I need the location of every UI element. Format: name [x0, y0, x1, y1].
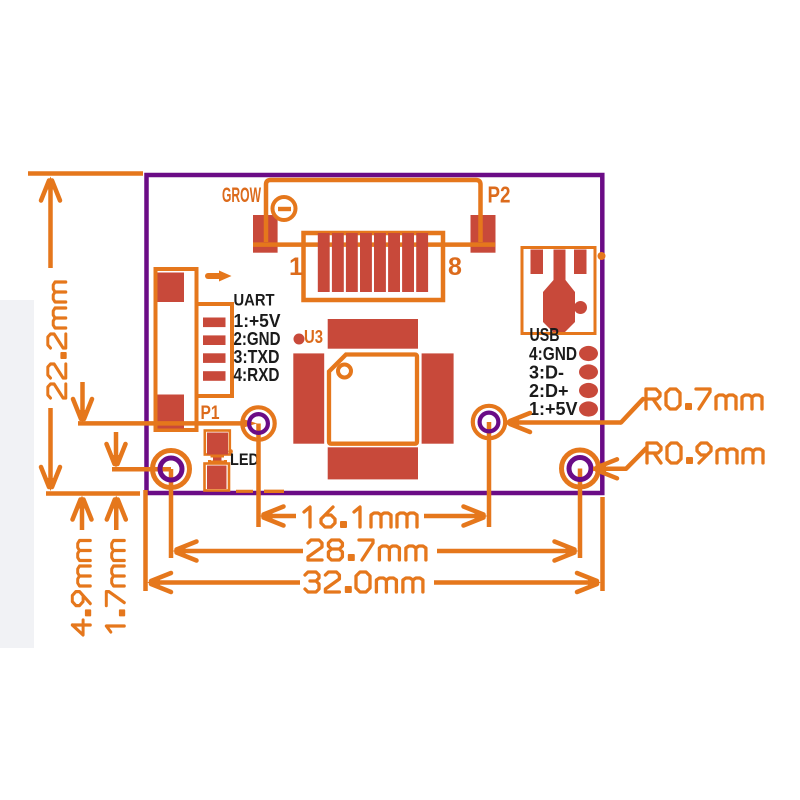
- svg-text:UART: UART: [234, 291, 276, 310]
- svg-text:1: 1: [289, 253, 303, 281]
- svg-text:1:+5V: 1:+5V: [529, 399, 578, 419]
- svg-text:U3: U3: [304, 327, 323, 347]
- svg-text:4:RXD: 4:RXD: [234, 365, 280, 385]
- svg-text:3:TXD: 3:TXD: [234, 347, 280, 367]
- svg-text:2:D+: 2:D+: [529, 381, 569, 401]
- svg-text:2:GND: 2:GND: [234, 329, 281, 349]
- svg-text:8: 8: [448, 253, 462, 281]
- svg-text:1:+5V: 1:+5V: [234, 311, 281, 331]
- svg-text:LED: LED: [230, 450, 259, 469]
- svg-text:3:D-: 3:D-: [529, 362, 564, 382]
- svg-text:GROW: GROW: [222, 184, 261, 207]
- svg-text:4:GND: 4:GND: [529, 344, 577, 364]
- svg-text:P2: P2: [488, 182, 511, 208]
- svg-text:USB: USB: [530, 325, 560, 345]
- svg-text:P1: P1: [201, 403, 220, 424]
